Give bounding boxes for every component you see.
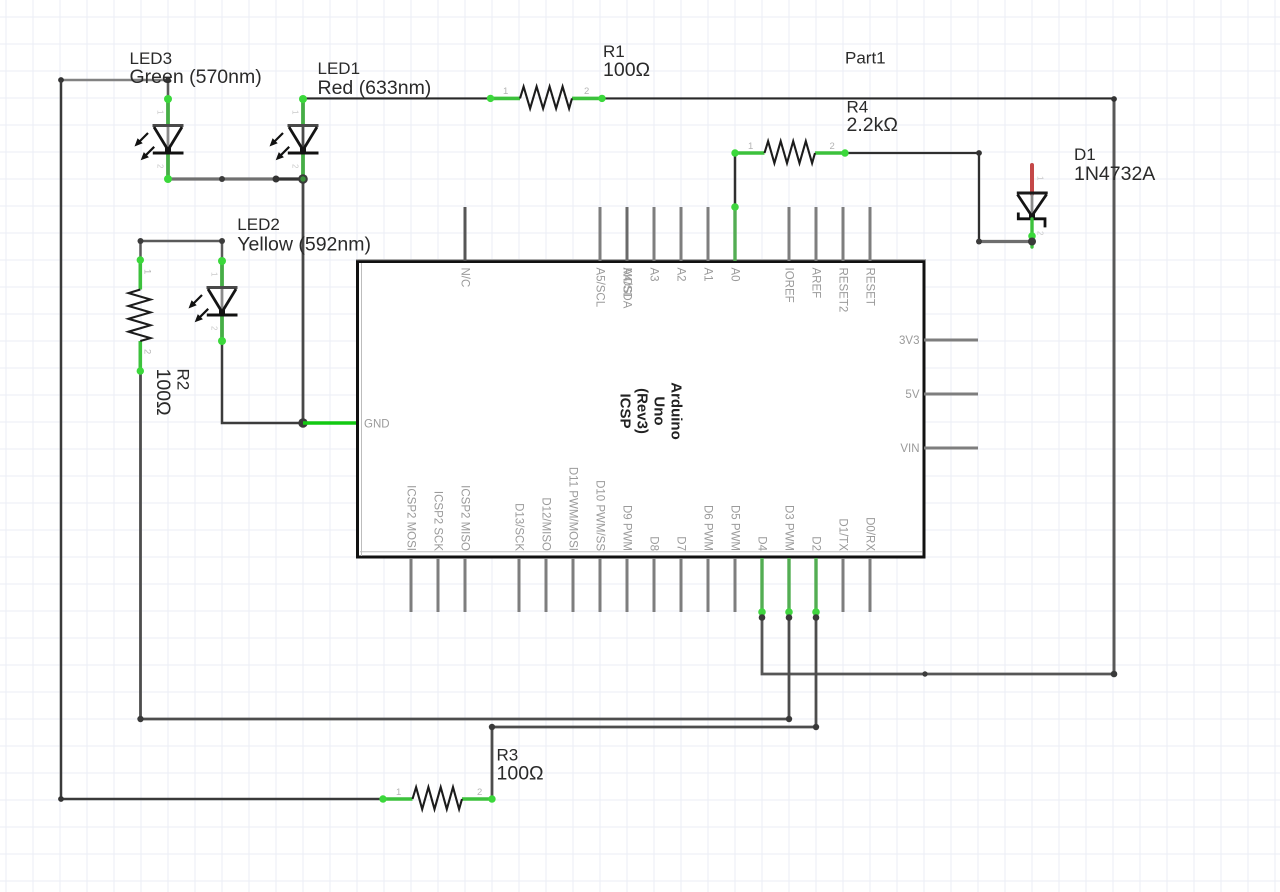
pin A5/SCL (top) bbox=[593, 207, 605, 308]
svg-text:3V3: 3V3 bbox=[899, 335, 919, 347]
svg-text:2: 2 bbox=[210, 326, 219, 331]
svg-text:1: 1 bbox=[396, 787, 401, 798]
pin 3V3 (right) bbox=[899, 335, 978, 347]
svg-text:D8: D8 bbox=[647, 536, 659, 551]
pin RESET2 (top) bbox=[836, 207, 848, 312]
svg-text:ICSP2 MOSI: ICSP2 MOSI bbox=[404, 485, 416, 551]
pin A0 (top, connected) bbox=[728, 203, 740, 281]
svg-text:2: 2 bbox=[142, 349, 153, 354]
svg-text:100Ω: 100Ω bbox=[603, 59, 650, 81]
pin D6 PWM (bottom) bbox=[701, 505, 713, 612]
pin RESET (top) bbox=[863, 207, 875, 306]
svg-text:RESET2: RESET2 bbox=[836, 268, 848, 313]
svg-text:1: 1 bbox=[748, 141, 753, 152]
resistor R2 bbox=[129, 256, 151, 374]
pin D10 PWM/SS (bottom) bbox=[593, 480, 605, 612]
junction: bendpoint bbox=[219, 176, 225, 182]
pin A1 (top) bbox=[701, 207, 713, 282]
wire: D4 to right rail bbox=[762, 612, 1114, 674]
pin numbers R4 bbox=[748, 141, 835, 152]
pin D11 PWM/MOSI (bottom) bbox=[566, 467, 578, 612]
svg-text:Uno: Uno bbox=[651, 396, 668, 425]
pin D1/TX (bottom) bbox=[836, 518, 848, 612]
svg-text:N/C: N/C bbox=[458, 268, 470, 288]
LED LED3 (Green 570nm) bbox=[135, 95, 184, 183]
junction: D4 net meets right rail bbox=[1111, 671, 1118, 678]
svg-text:2: 2 bbox=[830, 141, 835, 152]
pin ICSP2 MISO (bottom) bbox=[458, 485, 470, 612]
label R4 bbox=[847, 98, 898, 137]
svg-text:5V: 5V bbox=[905, 389, 919, 401]
svg-text:1N4732A: 1N4732A bbox=[1074, 163, 1155, 185]
svg-text:100Ω: 100Ω bbox=[497, 763, 544, 785]
junction: bendpoint bbox=[786, 716, 792, 722]
node: LED1/LED3 bottom junction bbox=[298, 174, 308, 184]
pin A3 (top) bbox=[647, 207, 659, 282]
svg-text:A1: A1 bbox=[701, 268, 713, 282]
junction: bendpoint bbox=[273, 176, 280, 183]
svg-text:2: 2 bbox=[584, 86, 589, 97]
pin A4/SDA (top) bbox=[620, 207, 632, 309]
svg-text:D1/TX: D1/TX bbox=[836, 518, 848, 551]
svg-text:RESET: RESET bbox=[863, 268, 875, 306]
svg-text:GND: GND bbox=[364, 419, 390, 431]
label R1 bbox=[603, 42, 650, 81]
svg-text:Red (633nm): Red (633nm) bbox=[318, 77, 432, 99]
wire: right rail vertical bbox=[1113, 99, 1116, 674]
junction: LED3 top bend bbox=[165, 77, 171, 83]
svg-text:D13/SCK: D13/SCK bbox=[512, 503, 524, 551]
svg-text:1: 1 bbox=[291, 110, 300, 115]
pin numbers R1 bbox=[503, 86, 589, 97]
svg-text:Green (570nm): Green (570nm) bbox=[130, 66, 262, 88]
svg-text:D5 PWM: D5 PWM bbox=[728, 505, 740, 551]
svg-text:ICSP2 SCK: ICSP2 SCK bbox=[431, 491, 443, 551]
svg-text:2: 2 bbox=[156, 164, 165, 169]
label R3 bbox=[497, 746, 544, 785]
label LED2 bbox=[237, 215, 371, 256]
label LED3 bbox=[130, 49, 262, 88]
junction: left rail bottom bend bbox=[58, 796, 64, 802]
svg-text:1: 1 bbox=[142, 269, 153, 274]
svg-text:1: 1 bbox=[156, 110, 165, 115]
label D1 bbox=[1074, 145, 1155, 185]
svg-text:IOREF: IOREF bbox=[782, 268, 794, 303]
svg-text:D12/MISO: D12/MISO bbox=[539, 497, 551, 551]
svg-text:A3: A3 bbox=[647, 268, 659, 282]
wire: bend segment to LED1 bottom bbox=[276, 177, 303, 180]
module title: Arduino Uno (Rev3) ICSP bbox=[617, 382, 685, 440]
pin IOREF (top) bbox=[782, 207, 794, 303]
pin D13/SCK (bottom) bbox=[512, 503, 524, 612]
junction: bendpoint bbox=[976, 239, 982, 245]
wire: LED2/R2 top link bbox=[141, 241, 223, 260]
svg-text:D3 PWM: D3 PWM bbox=[782, 505, 794, 551]
svg-text:(Rev3): (Rev3) bbox=[634, 388, 651, 434]
junction: top-right corner bbox=[1111, 96, 1117, 102]
junction: bendpoint bbox=[137, 716, 143, 722]
pin D2 (bottom, connected) bbox=[809, 536, 821, 621]
pin 5V (right) bbox=[905, 389, 978, 401]
junction: bendpoint bbox=[138, 238, 144, 244]
svg-text:ICSP2 MISO: ICSP2 MISO bbox=[458, 485, 470, 551]
svg-text:Yellow (592nm): Yellow (592nm) bbox=[237, 233, 371, 255]
pin numbers R3 bbox=[396, 787, 482, 798]
pin A2 (top) bbox=[674, 207, 686, 282]
pin D3 PWM (bottom, connected) bbox=[782, 505, 794, 621]
pin D4 (bottom, connected) bbox=[755, 536, 767, 621]
svg-text:R2: R2 bbox=[174, 369, 193, 391]
wire: LED1 top to top-right corner bbox=[303, 97, 492, 99]
wire: LED3 top to left rail bbox=[61, 79, 168, 82]
svg-text:AREF: AREF bbox=[809, 268, 821, 299]
module U1: Arduino Uno (Rev3) ICSP body bbox=[356, 260, 926, 557]
pin N/C (top) bbox=[458, 207, 470, 287]
svg-text:D0/RX: D0/RX bbox=[863, 517, 875, 551]
svg-text:VIN: VIN bbox=[900, 443, 919, 455]
resistor R3 bbox=[379, 787, 495, 809]
label Part1 bbox=[845, 49, 886, 68]
pin D12/MISO (bottom) bbox=[539, 497, 551, 612]
wire: D3 to R2 bottom bbox=[141, 371, 790, 719]
svg-text:D2: D2 bbox=[809, 536, 821, 551]
wire: R4 pin2 to D1 bbox=[845, 153, 979, 242]
svg-text:D6 PWM: D6 PWM bbox=[701, 505, 713, 551]
svg-text:D1: D1 bbox=[1074, 145, 1096, 164]
svg-text:MOSI: MOSI bbox=[620, 268, 632, 297]
pin D9 PWM (bottom) bbox=[620, 505, 632, 612]
svg-text:D10 PWM/SS: D10 PWM/SS bbox=[593, 480, 605, 551]
svg-text:2: 2 bbox=[1036, 231, 1045, 236]
pin AREF (top) bbox=[809, 207, 821, 298]
wire: LED3 top drop bbox=[167, 80, 170, 97]
svg-text:A0: A0 bbox=[728, 268, 740, 282]
resistor R4 bbox=[731, 141, 848, 163]
junction: left rail top bend bbox=[58, 77, 64, 83]
svg-text:2: 2 bbox=[477, 787, 482, 798]
svg-text:Arduino: Arduino bbox=[668, 382, 685, 440]
pin VIN (right) bbox=[900, 443, 978, 455]
diode D1: zener 1N4732A bbox=[1017, 165, 1048, 247]
wire: LED2 bottom to GND node bbox=[222, 341, 303, 423]
node GND junction bbox=[298, 418, 307, 427]
junction: bendpoint bbox=[922, 671, 927, 676]
pin ICSP2 SCK (bottom) bbox=[431, 491, 443, 612]
wire: A0 up to R4 pin1 bbox=[734, 153, 737, 207]
svg-text:1: 1 bbox=[210, 272, 219, 277]
pin D7 (bottom) bbox=[674, 536, 686, 612]
svg-text:LED1: LED1 bbox=[318, 59, 361, 78]
wire: LED3 bottom to LED1 bottom bbox=[168, 177, 276, 180]
pin D5 PWM (bottom) bbox=[728, 505, 740, 612]
junction: bendpoint bbox=[813, 724, 819, 730]
wire: D2 to R3 pin2 bbox=[492, 612, 816, 799]
svg-text:ICSP: ICSP bbox=[617, 393, 634, 428]
svg-text:A5/SCL: A5/SCL bbox=[593, 268, 605, 308]
svg-text:100Ω: 100Ω bbox=[152, 369, 174, 416]
LED LED1 (Red 633nm) bbox=[270, 95, 319, 183]
junction: bendpoint bbox=[489, 724, 495, 730]
svg-text:D7: D7 bbox=[674, 536, 686, 551]
svg-text:1: 1 bbox=[503, 86, 508, 97]
LED LED2 (Yellow 592nm) bbox=[189, 257, 238, 345]
svg-text:A2: A2 bbox=[674, 268, 686, 282]
label LED1 bbox=[318, 59, 432, 99]
pin ICSP2 MOSI (bottom) bbox=[404, 485, 416, 612]
label R2 (rotated) bbox=[152, 369, 193, 416]
wire: green GND pin connection bbox=[303, 421, 358, 425]
resistor R1 bbox=[487, 87, 606, 109]
wire: LED1/LED3 bottoms down to GND node bbox=[302, 179, 305, 423]
junction: bendpoint bbox=[976, 150, 982, 156]
pin D0/RX (bottom) bbox=[863, 517, 875, 612]
svg-text:1: 1 bbox=[1036, 176, 1045, 181]
svg-text:D11 PWM/MOSI: D11 PWM/MOSI bbox=[566, 467, 578, 551]
svg-text:D4: D4 bbox=[755, 536, 767, 551]
pin D8 (bottom) bbox=[647, 536, 659, 612]
wire: left rail down to R3 bbox=[61, 80, 383, 799]
pin numbers R2 bbox=[142, 269, 153, 354]
svg-text:2.2kΩ: 2.2kΩ bbox=[847, 114, 898, 136]
svg-text:2: 2 bbox=[291, 164, 300, 169]
svg-text:D9 PWM: D9 PWM bbox=[620, 505, 632, 551]
svg-text:LED2: LED2 bbox=[237, 215, 280, 234]
svg-text:Part1: Part1 bbox=[845, 49, 886, 68]
junction: bendpoint bbox=[219, 238, 225, 244]
